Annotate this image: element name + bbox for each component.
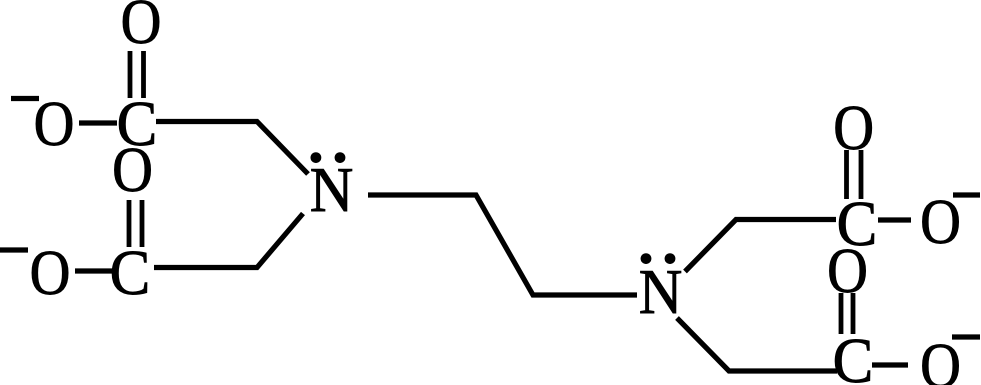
svg-text:N: N — [639, 258, 683, 328]
svg-text:C: C — [110, 239, 151, 308]
svg-text:O: O — [920, 187, 961, 258]
svg-text:O: O — [112, 135, 153, 206]
svg-text:O: O — [827, 236, 868, 307]
svg-text:N: N — [310, 156, 354, 226]
svg-text:C: C — [833, 327, 874, 385]
svg-text:O: O — [34, 89, 75, 160]
svg-text:O: O — [30, 238, 71, 309]
svg-text:O: O — [920, 331, 961, 385]
svg-text:O: O — [833, 93, 874, 164]
svg-text:O: O — [121, 0, 162, 58]
